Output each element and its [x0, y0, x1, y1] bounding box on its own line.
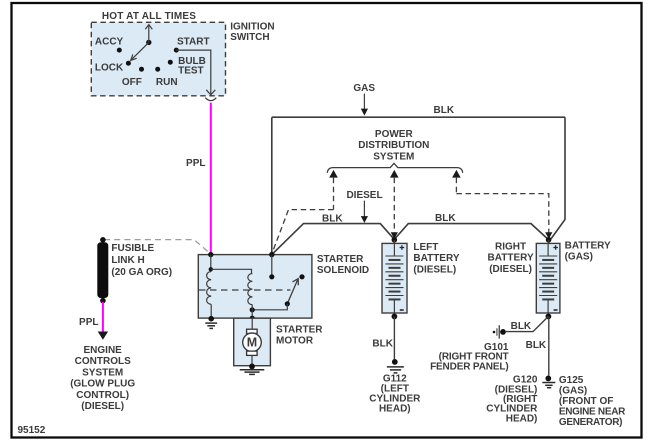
- node right battery positive: [546, 237, 552, 243]
- svg-text:(DIESEL): (DIESEL): [489, 264, 532, 275]
- label IGNITION SWITCH: [230, 22, 274, 43]
- ground starter motor: [240, 370, 265, 375]
- svg-text:SYSTEM: SYSTEM: [373, 151, 414, 162]
- svg-text:STARTER: STARTER: [276, 325, 323, 336]
- svg-text:BATTERY: BATTERY: [488, 253, 534, 264]
- wire BLK entry to contact: [271, 255, 273, 277]
- gas feed arrow: [361, 94, 368, 116]
- contact dot LOCK: [126, 61, 131, 66]
- label FUSIBLE LINK H (20 GA ORG): [111, 243, 172, 278]
- contact dot START: [174, 48, 179, 53]
- left battery body: [382, 243, 407, 313]
- arrow 2 to power distribution: [390, 170, 399, 239]
- label LEFT BATTERY (DIESEL): [413, 242, 459, 275]
- arrow 1 to power distribution: [329, 170, 338, 210]
- wire BLK top bus: [272, 116, 565, 118]
- right battery plus sign: [553, 245, 558, 250]
- contact dot BLK: [269, 274, 274, 279]
- motor terminal bottom: [247, 351, 258, 355]
- switch lever arm: [131, 42, 149, 60]
- svg-text:G125: G125: [559, 375, 584, 386]
- node fusible link bottom: [100, 298, 106, 304]
- svg-text:LEFT: LEFT: [413, 242, 438, 253]
- node right battery negative: [546, 314, 552, 320]
- svg-text:FENDER PANEL): FENDER PANEL): [430, 361, 508, 372]
- svg-text:95152: 95152: [18, 425, 46, 436]
- label RIGHT BATTERY (DIESEL): [488, 241, 534, 274]
- label G120 (DIESEL) (RIGHT CYLINDER HEAD): [486, 375, 538, 425]
- wire right battery to G101: [506, 316, 548, 331]
- feed arrow to HOT AT ALL TIMES: [145, 25, 152, 43]
- svg-text:ENGINE: ENGINE: [84, 345, 123, 356]
- node fusible link top: [100, 237, 106, 243]
- node coil junction: [209, 267, 213, 271]
- svg-text:DIESEL: DIESEL: [346, 190, 382, 201]
- svg-text:SOLENOID: SOLENOID: [317, 265, 369, 276]
- svg-text:PPL: PPL: [186, 158, 205, 169]
- svg-text:(FRONT OF: (FRONT OF: [559, 396, 613, 407]
- motor terminal top: [247, 329, 258, 333]
- svg-text:STARTER: STARTER: [317, 254, 364, 265]
- svg-text:IGNITION: IGNITION: [230, 22, 274, 33]
- label POWER DISTRIBUTION SYSTEM: [358, 129, 429, 162]
- wire coil L1 to ground: [210, 304, 212, 319]
- contact dot OFF: [139, 67, 144, 72]
- svg-text:HOT AT ALL TIMES: HOT AT ALL TIMES: [102, 11, 196, 22]
- dashed wire from arrow 3 to right battery: [456, 194, 552, 239]
- svg-text:BLK: BLK: [372, 339, 393, 350]
- wire switch arm to motor node: [252, 304, 287, 310]
- svg-text:CONTROLS: CONTROLS: [75, 356, 131, 367]
- svg-text:(GAS): (GAS): [559, 386, 587, 397]
- label ENGINE CONTROLS SYSTEM (GLOW PLUG CONTROL) (DIESEL): [70, 345, 135, 412]
- svg-text:LOCK: LOCK: [95, 62, 124, 73]
- dashed wire from arrow 1 to solenoid node: [272, 210, 334, 254]
- left battery plus sign: [400, 245, 405, 250]
- ground solenoid: [205, 323, 217, 328]
- svg-text:(GLOW PLUG: (GLOW PLUG: [70, 379, 135, 390]
- wire BLK bus to batteries: [272, 224, 548, 255]
- left battery minus sign: [400, 309, 404, 311]
- label G125 (GAS) (FRONT OF ENGINE NEAR GENERATOR): [559, 375, 626, 428]
- coil L2 pull-in: [248, 274, 253, 305]
- svg-text:ACCY: ACCY: [95, 36, 124, 47]
- svg-text:BATTERY: BATTERY: [565, 241, 611, 252]
- node switch arm pivot: [285, 301, 290, 306]
- svg-text:BLK: BLK: [435, 213, 456, 224]
- ground G120/G125: [542, 376, 555, 388]
- node solenoid output: [250, 316, 255, 321]
- svg-text:RUN: RUN: [156, 77, 178, 88]
- svg-text:BLK: BLK: [434, 105, 455, 116]
- fusible link H body: [97, 242, 108, 298]
- svg-text:(20 GA ORG): (20 GA ORG): [111, 267, 172, 278]
- wire right battery to G120/G125: [548, 316, 550, 375]
- contact dot BULB TEST: [168, 60, 173, 65]
- wire BLK left vertical: [271, 117, 273, 254]
- wire coil L2 bottom to box edge: [251, 305, 253, 319]
- svg-text:(GAS): (GAS): [565, 252, 593, 263]
- right battery minus sign: [554, 309, 558, 311]
- svg-text:HEAD): HEAD): [379, 403, 411, 414]
- right battery plates: [539, 243, 557, 313]
- svg-text:START: START: [177, 36, 210, 47]
- contact dot ACCY: [117, 48, 122, 53]
- contact dot switch throw: [299, 274, 304, 279]
- svg-text:LINK H: LINK H: [111, 255, 144, 266]
- label BATTERY (GAS): [565, 241, 611, 263]
- motor M circle: [243, 333, 262, 352]
- wire solenoid to motor: [251, 318, 253, 329]
- label STARTER SOLENOID: [317, 254, 369, 276]
- node left battery positive: [392, 237, 398, 243]
- solenoid switch arm: [287, 279, 298, 304]
- label BULB TEST: [178, 56, 206, 76]
- svg-text:PPL: PPL: [79, 317, 98, 328]
- svg-text:HEAD): HEAD): [506, 413, 538, 424]
- svg-text:DISTRIBUTION: DISTRIBUTION: [358, 140, 429, 151]
- label G112 (LEFT CYLINDER HEAD): [369, 373, 421, 414]
- ignition switch box: [91, 22, 225, 96]
- svg-text:M: M: [247, 336, 257, 350]
- label G101 (RIGHT FRONT FENDER PANEL): [430, 342, 509, 372]
- coil L1 hold-in: [207, 272, 212, 305]
- connector half circle: [205, 98, 216, 101]
- wire PPL entry to coils: [210, 255, 212, 270]
- node BLK entry: [269, 252, 274, 257]
- wire BLK right vertical: [551, 117, 565, 239]
- node coil L2 bottom: [250, 307, 255, 312]
- ground G112: [387, 359, 404, 373]
- diesel feed arrow: [361, 201, 368, 223]
- svg-text:FUSIBLE: FUSIBLE: [111, 243, 154, 254]
- right battery body: [536, 243, 560, 313]
- wire coil junction to pull-in coil: [211, 269, 252, 273]
- svg-text:OFF: OFF: [122, 77, 142, 88]
- wire motor to ground: [251, 355, 253, 366]
- node solenoid ground: [208, 316, 214, 322]
- label STARTER MOTOR: [276, 325, 323, 347]
- node left battery negative: [392, 314, 398, 320]
- svg-text:GAS: GAS: [353, 83, 375, 94]
- wire left battery to G112: [393, 316, 395, 359]
- starter solenoid box: [198, 255, 312, 319]
- svg-text:MOTOR: MOTOR: [276, 335, 314, 346]
- svg-text:RIGHT: RIGHT: [495, 241, 526, 252]
- wire from START to connector: [176, 50, 211, 94]
- svg-text:SYSTEM: SYSTEM: [82, 367, 123, 378]
- svg-text:ENGINE NEAR: ENGINE NEAR: [559, 406, 626, 417]
- starter motor box: [234, 318, 271, 366]
- wire PPL from ignition switch: [210, 103, 212, 255]
- contact dot RUN: [155, 67, 160, 72]
- svg-text:TEST: TEST: [178, 66, 204, 77]
- ground stud G101: [493, 325, 506, 338]
- svg-text:(DIESEL): (DIESEL): [413, 264, 456, 275]
- wire PPL to engine controls: [102, 302, 104, 332]
- switch pivot dot: [146, 40, 151, 45]
- svg-text:CONTROL): CONTROL): [76, 390, 129, 401]
- svg-text:BLK: BLK: [322, 213, 343, 224]
- arrow to engine controls system: [98, 332, 108, 340]
- dashed linkage line: [199, 289, 291, 291]
- svg-text:POWER: POWER: [375, 129, 414, 140]
- svg-text:BLK: BLK: [526, 340, 547, 351]
- svg-text:GENERATOR): GENERATOR): [559, 417, 622, 428]
- svg-text:SWITCH: SWITCH: [230, 32, 269, 43]
- arrow into connector: [206, 90, 215, 95]
- dashed tap wire to fusible link: [104, 240, 210, 254]
- svg-text:(DIESEL): (DIESEL): [81, 401, 124, 412]
- node motor ground: [249, 364, 255, 370]
- left battery plates: [385, 243, 403, 313]
- arrow 3 to power distribution: [452, 170, 461, 194]
- svg-text:BATTERY: BATTERY: [413, 253, 459, 264]
- brace under power distribution system: [327, 163, 462, 173]
- node PPL entry: [208, 252, 213, 257]
- svg-text:BLK: BLK: [511, 321, 532, 332]
